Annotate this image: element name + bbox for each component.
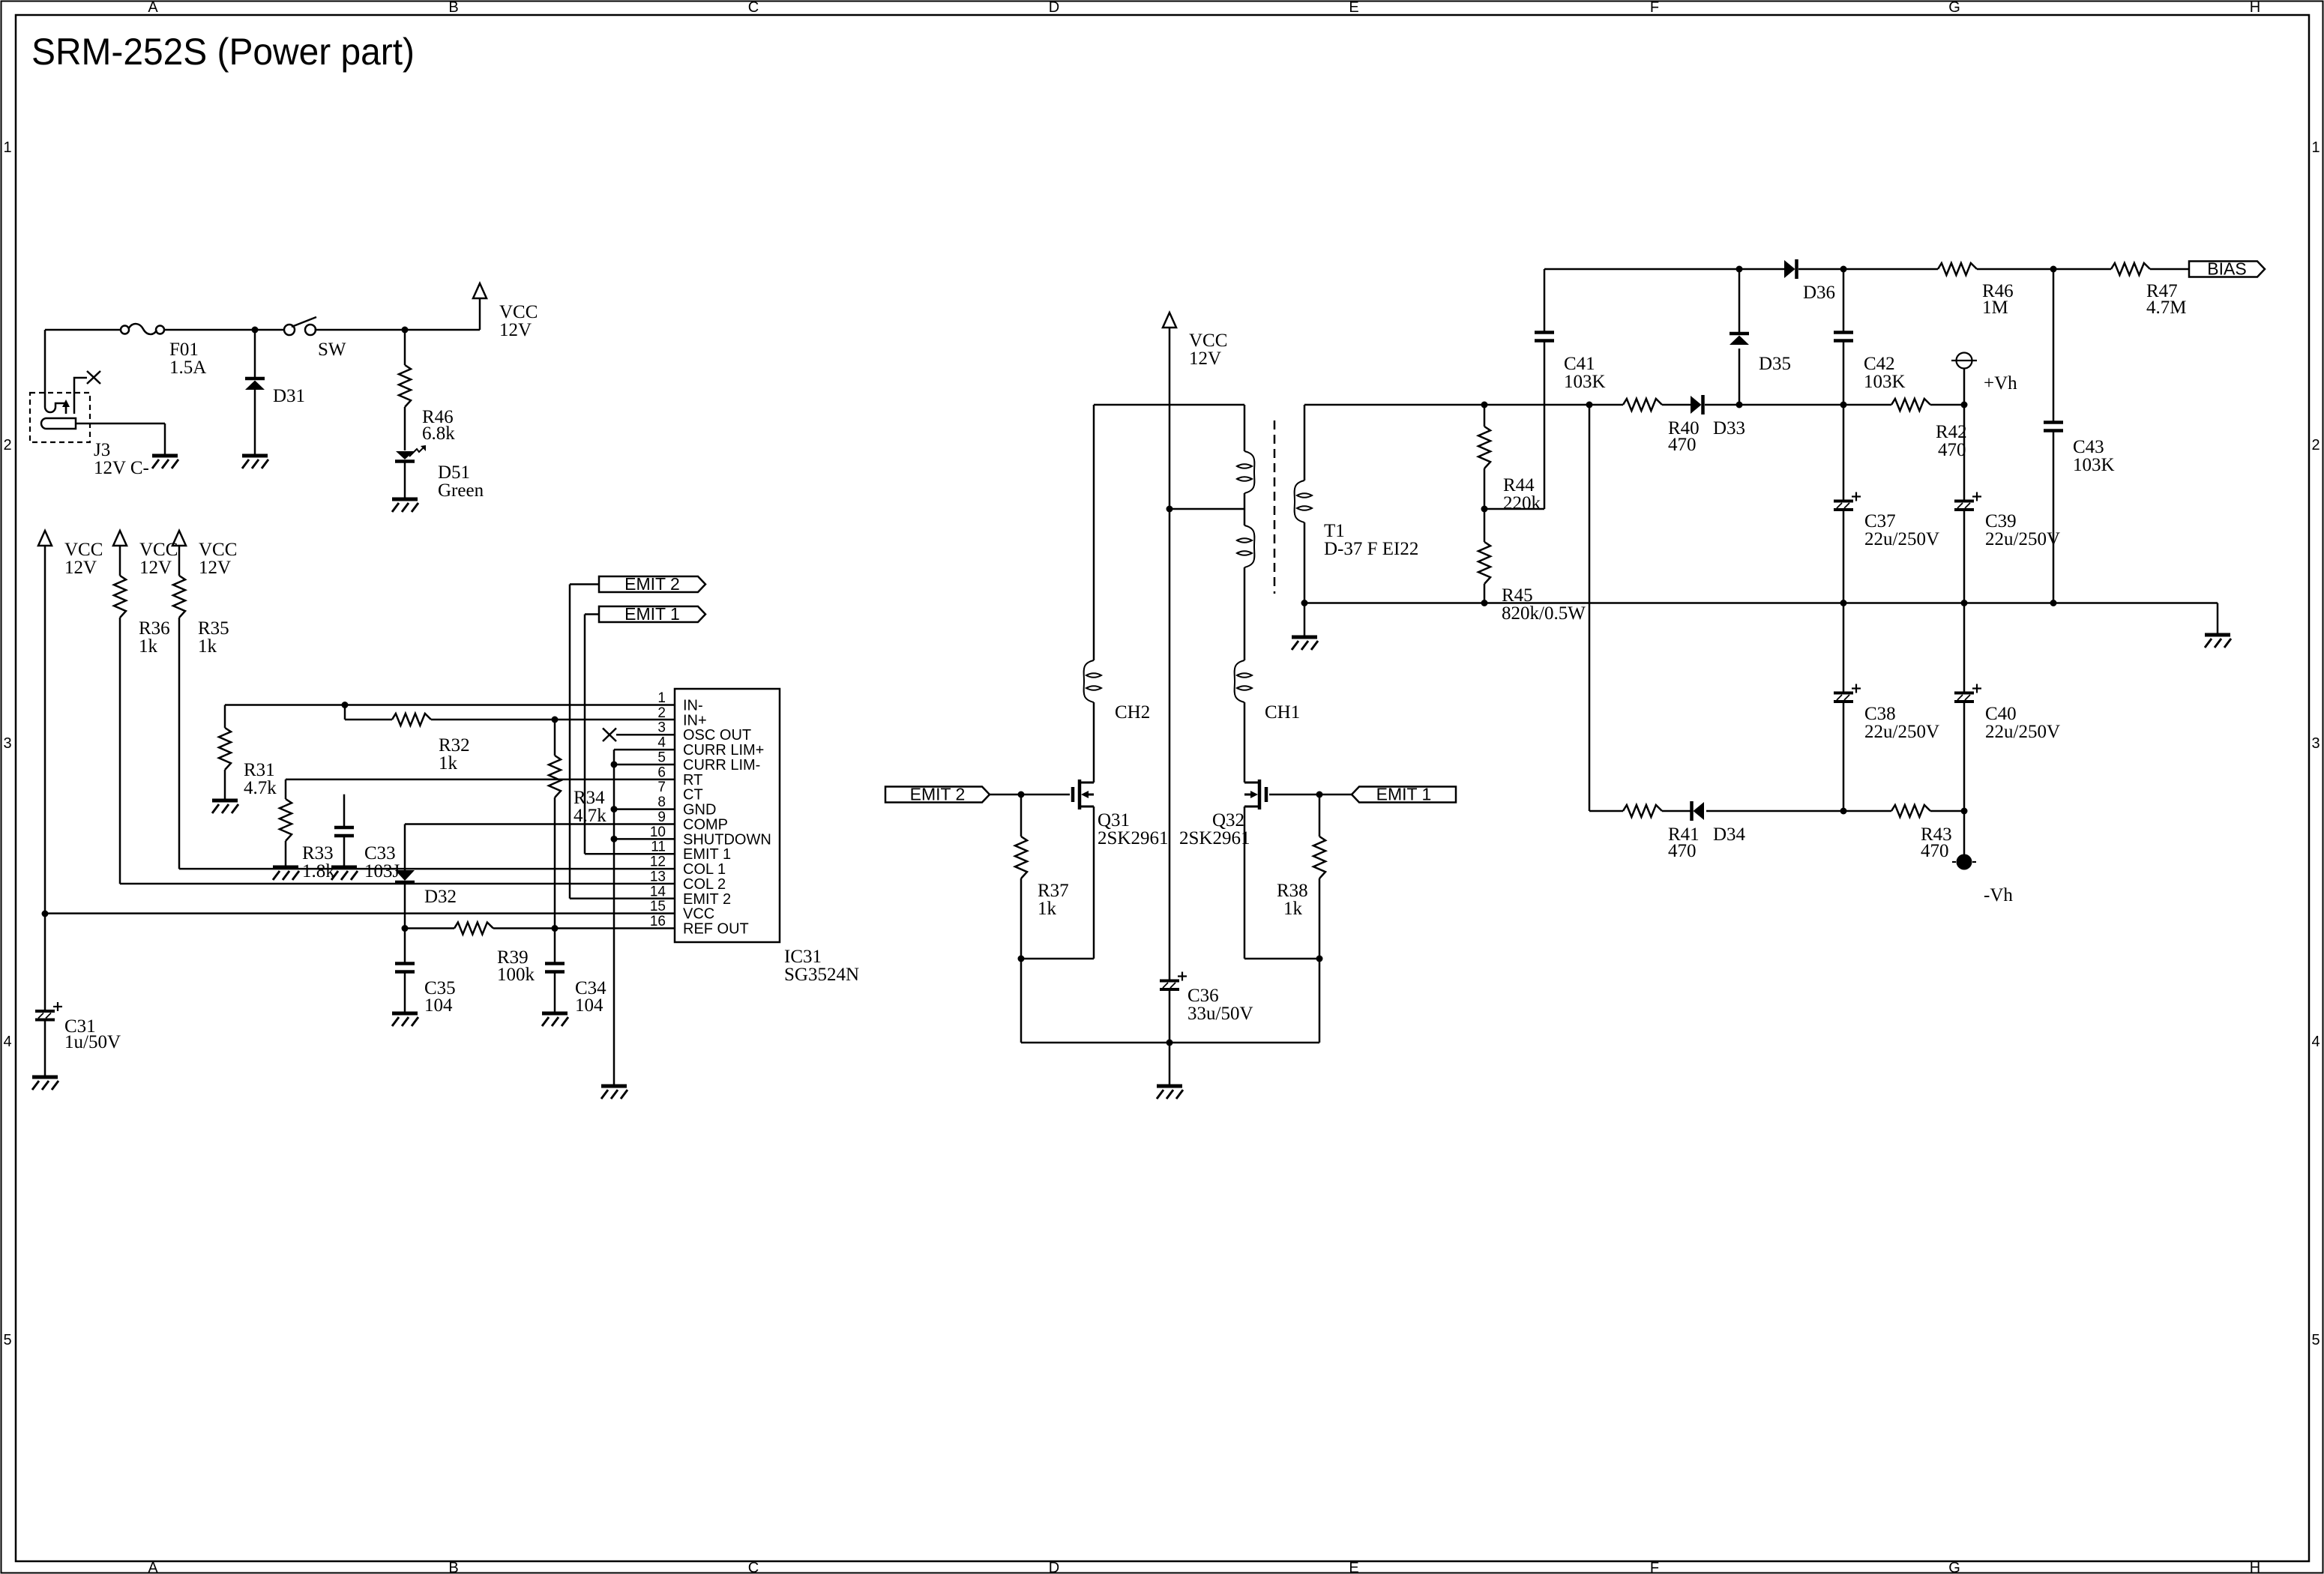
svg-text:RT: RT xyxy=(683,772,702,788)
svg-text:4.7k: 4.7k xyxy=(244,778,277,798)
svg-text:A: A xyxy=(148,1560,158,1574)
svg-text:F01: F01 xyxy=(169,340,199,360)
svg-text:SRM-252S (Power part): SRM-252S (Power part) xyxy=(31,31,415,73)
svg-text:1u/50V: 1u/50V xyxy=(64,1032,121,1052)
svg-text:470: 470 xyxy=(1668,435,1697,455)
svg-text:22u/250V: 22u/250V xyxy=(1864,529,1939,549)
svg-text:4: 4 xyxy=(657,735,666,751)
svg-text:3: 3 xyxy=(657,720,666,736)
svg-text:C33: C33 xyxy=(364,843,396,863)
svg-text:BIAS: BIAS xyxy=(2207,259,2246,279)
svg-text:470: 470 xyxy=(1938,440,1966,460)
svg-text:F: F xyxy=(1650,1560,1659,1574)
svg-text:12V: 12V xyxy=(1189,349,1221,369)
svg-text:12V: 12V xyxy=(64,558,97,578)
svg-text:G: G xyxy=(1948,1560,1960,1574)
svg-text:1k: 1k xyxy=(439,753,458,774)
svg-text:IC31: IC31 xyxy=(784,947,822,967)
svg-text:33u/50V: 33u/50V xyxy=(1187,1004,1253,1024)
svg-text:6.8k: 6.8k xyxy=(422,423,455,444)
svg-text:1.5A: 1.5A xyxy=(169,358,206,378)
svg-text:D: D xyxy=(1049,1560,1059,1574)
svg-text:R32: R32 xyxy=(439,735,470,756)
svg-text:1k: 1k xyxy=(1283,899,1303,919)
svg-text:A: A xyxy=(148,0,158,16)
svg-text:D35: D35 xyxy=(1759,354,1791,374)
svg-text:22u/250V: 22u/250V xyxy=(1985,529,2060,549)
svg-text:R42: R42 xyxy=(1936,422,1967,442)
svg-text:E: E xyxy=(1349,1560,1358,1574)
svg-text:G: G xyxy=(1948,0,1960,16)
svg-text:9: 9 xyxy=(657,809,666,825)
svg-text:22u/250V: 22u/250V xyxy=(1985,722,2060,742)
svg-text:VCC: VCC xyxy=(199,540,237,560)
svg-text:13: 13 xyxy=(650,869,666,884)
svg-text:VCC: VCC xyxy=(1189,331,1227,351)
svg-text:CT: CT xyxy=(683,787,703,803)
svg-text:Q31: Q31 xyxy=(1098,810,1130,830)
svg-text:VCC: VCC xyxy=(683,906,714,923)
svg-text:D-37 F EI22: D-37 F EI22 xyxy=(1324,539,1418,559)
svg-text:R33: R33 xyxy=(302,843,334,863)
svg-text:B: B xyxy=(448,1560,458,1574)
svg-text:SHUTDOWN: SHUTDOWN xyxy=(683,831,771,848)
svg-text:1k: 1k xyxy=(1038,899,1057,919)
svg-text:VCC: VCC xyxy=(139,540,178,560)
svg-text:C36: C36 xyxy=(1187,986,1219,1006)
svg-text:D36: D36 xyxy=(1803,283,1835,303)
svg-text:EMIT 1: EMIT 1 xyxy=(624,604,680,624)
svg-text:D34: D34 xyxy=(1713,824,1746,845)
svg-text:R31: R31 xyxy=(244,760,275,780)
svg-text:2: 2 xyxy=(657,705,666,721)
svg-text:EMIT 1: EMIT 1 xyxy=(683,846,731,863)
svg-text:470: 470 xyxy=(1668,841,1697,861)
svg-text:1k: 1k xyxy=(139,636,158,657)
svg-text:COL 2: COL 2 xyxy=(683,876,726,893)
svg-text:COL 1: COL 1 xyxy=(683,861,726,878)
svg-text:2: 2 xyxy=(3,437,11,453)
svg-text:1: 1 xyxy=(2311,139,2320,156)
svg-text:Green: Green xyxy=(438,480,484,501)
svg-text:REF OUT: REF OUT xyxy=(683,921,749,938)
svg-text:10: 10 xyxy=(650,824,666,840)
svg-text:R36: R36 xyxy=(139,618,170,639)
svg-text:12V: 12V xyxy=(199,558,231,578)
svg-text:EMIT 2: EMIT 2 xyxy=(624,574,680,594)
svg-text:4.7M: 4.7M xyxy=(2146,298,2186,318)
svg-text:IN+: IN+ xyxy=(683,712,707,729)
svg-text:3: 3 xyxy=(3,735,11,752)
svg-text:1: 1 xyxy=(657,690,666,706)
svg-text:104: 104 xyxy=(424,995,453,1016)
svg-text:D31: D31 xyxy=(273,386,305,406)
svg-text:H: H xyxy=(2250,0,2260,16)
svg-text:D: D xyxy=(1049,0,1059,16)
svg-text:820k/0.5W: 820k/0.5W xyxy=(1502,603,1586,624)
svg-text:104: 104 xyxy=(575,995,603,1016)
svg-text:16: 16 xyxy=(650,914,666,929)
svg-text:11: 11 xyxy=(651,839,666,855)
svg-text:SW: SW xyxy=(318,340,346,360)
svg-text:C43: C43 xyxy=(2073,437,2104,457)
svg-text:1: 1 xyxy=(3,139,11,156)
svg-text:6: 6 xyxy=(657,765,666,780)
svg-text:R38: R38 xyxy=(1277,881,1308,901)
svg-text:VCC: VCC xyxy=(499,302,538,322)
svg-text:5: 5 xyxy=(2311,1332,2320,1348)
svg-text:VCC: VCC xyxy=(64,540,103,560)
svg-text:103K: 103K xyxy=(2073,455,2115,475)
svg-text:C38: C38 xyxy=(1864,704,1896,724)
svg-text:GND: GND xyxy=(683,802,716,818)
svg-text:2SK2961: 2SK2961 xyxy=(1098,828,1168,848)
svg-text:4: 4 xyxy=(3,1034,11,1050)
svg-text:5: 5 xyxy=(657,750,666,765)
svg-text:4: 4 xyxy=(2311,1034,2320,1050)
svg-text:1M: 1M xyxy=(1982,298,2008,318)
svg-text:J3: J3 xyxy=(94,440,110,460)
svg-text:100k: 100k xyxy=(497,965,535,985)
svg-text:12: 12 xyxy=(650,854,666,870)
svg-text:C: C xyxy=(748,1560,759,1574)
svg-text:D51: D51 xyxy=(438,462,470,483)
svg-text:C42: C42 xyxy=(1864,354,1895,374)
svg-text:COMP: COMP xyxy=(683,816,728,833)
svg-text:R44: R44 xyxy=(1503,475,1535,495)
svg-text:1.8k: 1.8k xyxy=(302,861,335,881)
svg-text:B: B xyxy=(448,0,458,16)
svg-text:CURR LIM+: CURR LIM+ xyxy=(683,742,764,759)
svg-text:C40: C40 xyxy=(1985,704,2017,724)
svg-text:R35: R35 xyxy=(198,618,229,639)
svg-text:CURR LIM-: CURR LIM- xyxy=(683,757,760,774)
svg-text:C: C xyxy=(748,0,759,16)
svg-text:2SK2961: 2SK2961 xyxy=(1179,828,1250,848)
svg-text:220k: 220k xyxy=(1503,493,1541,513)
svg-text:T1: T1 xyxy=(1324,521,1345,541)
svg-text:Q32: Q32 xyxy=(1212,810,1244,830)
svg-text:4.7k: 4.7k xyxy=(574,806,606,826)
svg-text:3: 3 xyxy=(2311,735,2320,752)
svg-text:CH1: CH1 xyxy=(1265,702,1300,723)
svg-text:2: 2 xyxy=(2311,437,2320,453)
svg-text:D33: D33 xyxy=(1713,418,1745,438)
svg-text:470: 470 xyxy=(1921,841,1949,861)
svg-text:12V C-: 12V C- xyxy=(94,458,149,478)
svg-text:103K: 103K xyxy=(1564,372,1606,392)
svg-text:8: 8 xyxy=(657,794,666,810)
svg-text:C39: C39 xyxy=(1985,511,2017,531)
svg-text:CH2: CH2 xyxy=(1115,702,1150,723)
svg-text:D32: D32 xyxy=(424,887,457,907)
svg-text:SG3524N: SG3524N xyxy=(784,965,859,985)
svg-text:EMIT 2: EMIT 2 xyxy=(910,785,966,804)
svg-text:R34: R34 xyxy=(574,788,605,808)
svg-text:E: E xyxy=(1349,0,1358,16)
svg-text:12V: 12V xyxy=(499,320,532,340)
svg-text:7: 7 xyxy=(657,780,666,795)
svg-text:H: H xyxy=(2250,1560,2260,1574)
svg-text:F: F xyxy=(1650,0,1659,16)
svg-text:12V: 12V xyxy=(139,558,172,578)
svg-text:22u/250V: 22u/250V xyxy=(1864,722,1939,742)
svg-text:IN-: IN- xyxy=(683,698,703,714)
svg-text:OSC OUT: OSC OUT xyxy=(683,727,751,744)
svg-text:1k: 1k xyxy=(198,636,217,657)
svg-text:EMIT 2: EMIT 2 xyxy=(683,891,731,908)
svg-text:14: 14 xyxy=(650,884,666,899)
svg-text:+Vh: +Vh xyxy=(1984,373,2017,393)
svg-text:5: 5 xyxy=(3,1332,11,1348)
svg-text:-Vh: -Vh xyxy=(1984,885,2013,905)
svg-text:103J: 103J xyxy=(364,861,400,881)
svg-text:15: 15 xyxy=(650,899,666,914)
svg-text:103K: 103K xyxy=(1864,372,1906,392)
svg-text:EMIT 1: EMIT 1 xyxy=(1376,785,1432,804)
svg-text:R37: R37 xyxy=(1038,881,1069,901)
svg-text:C37: C37 xyxy=(1864,511,1896,531)
svg-text:C41: C41 xyxy=(1564,354,1595,374)
